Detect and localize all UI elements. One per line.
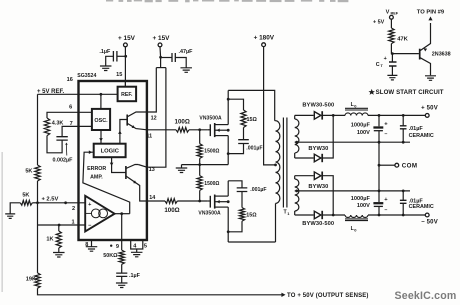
pin 13 [149,167,155,173]
wire OSC to LOGIC [99,130,103,144]
wire snubber2 bottom [228,221,242,232]
svg-text:CERAMIC: CERAMIC [409,133,434,139]
svg-text:12: 12 [151,115,157,121]
IC U1 SG3524 outline [79,81,147,240]
capacitor .001uF bottom [237,188,248,192]
capacitor .47uF bypass [161,53,187,68]
junction gate bottom [198,200,201,203]
junction pin1-1K [58,224,61,227]
junction CT [391,52,394,55]
junction COM top [378,141,405,144]
pin 2 [72,206,75,212]
wire 100ohm to gate [189,129,208,131]
resistor 1500 top [197,130,202,159]
svg-text:2N3638: 2N3638 [432,51,451,57]
svg-text:.1µF: .1µF [99,49,111,55]
svg-text:BYW30-500: BYW30-500 [302,103,334,109]
transistor M1 VN3500A [208,123,230,137]
resistor 5K upper [35,165,40,181]
ground (bypass cap 1) [100,66,112,71]
wire +15V1 to pin 15 [124,47,126,87]
power terminal +15V (left) [118,35,136,47]
label VN3500A top [199,115,222,121]
wire +15V split bar [156,67,166,69]
label L0 top [351,102,358,108]
pin 9 [110,244,119,250]
wire pin 1 feedback [38,224,86,226]
svg-text:T: T [381,64,384,68]
svg-text:BYW30: BYW30 [308,146,328,152]
label +5V REF. [37,89,65,95]
label 15ohm top [247,117,258,123]
transistor M2 VN3500A [208,195,230,209]
svg-text:15Ω: 15Ω [246,213,257,219]
svg-text:BYW30-500: BYW30-500 [302,221,334,227]
diode D2 BYW30 [314,154,322,162]
label SLOW START CIRCUIT [369,89,444,96]
junction rectifier bottom [332,214,335,217]
svg-text:−: − [384,132,387,138]
svg-text:19K: 19K [26,276,36,282]
label .001uF bottom [250,187,266,193]
power terminal -50V [421,213,438,225]
power terminal +50V [421,106,438,118]
label .001uF top [246,146,262,152]
ground (pin 8) [86,247,98,252]
svg-text:15Ω: 15Ω [247,117,258,123]
pin 8 [85,242,88,248]
wire output sense line [38,288,286,297]
junction gnd bus [198,163,201,166]
svg-text:.001µF: .001µF [246,146,262,152]
wire +5V REF (pin 16) to REF block [38,93,118,95]
label 1000uF 100V bottom [351,196,371,209]
label .1uF [99,49,111,55]
svg-text:+ 5V: + 5V [373,20,385,26]
resistor 15ohm bottom [239,208,244,222]
transformer core [283,118,287,208]
wire pin 14 out [147,200,165,202]
wire COM rail top [298,141,410,143]
svg-text:6: 6 [69,104,72,110]
block LOGIC [94,144,126,158]
svg-text:9: 9 [116,244,119,250]
ground (pin 9 cap) [116,283,128,288]
label TO +50V OUTPUT SENSE [287,293,369,299]
junction snubber1 bottom [227,152,230,155]
svg-text:+ 2.5V: + 2.5V [41,197,58,203]
svg-text:100Ω: 100Ω [164,207,179,214]
label .01uF CERAMIC top [409,126,434,139]
label 2N3638 [432,51,451,57]
pin 4 and 5 tie [131,240,147,252]
label BYW30-500 bottom [302,221,334,227]
junction secondary2 center tap [295,190,298,193]
label 100ohm top [175,118,190,125]
wire drain top rail [228,90,275,120]
label +5V [373,20,385,26]
power terminal +180V [254,34,275,46]
block OSC [92,109,110,130]
wire pin 11 out [147,129,176,131]
capacitor CT [384,54,397,76]
wire +5V REF bus [37,94,39,165]
svg-text:VN3500A: VN3500A [199,115,222,121]
wire 1500 top to gnd bus [199,158,201,164]
resistor 5K lower [20,200,32,205]
label 5K upper [25,169,32,175]
capacitor .01uF bottom [400,191,407,215]
svg-text:13: 13 [149,167,155,173]
power terminal COM [395,162,418,169]
svg-text:LOGIC: LOGIC [101,149,120,155]
label VN3500A bottom [198,211,221,217]
wire 50K to .1uF [121,264,123,273]
wire snubber1 top [228,99,243,110]
wire 47K to base [391,44,419,54]
junction C-top [378,114,405,117]
junction +15V1 [124,55,127,58]
capacitor C1000uF bottom [373,191,388,215]
wire sec1 bottom tap [295,157,314,159]
diode D3 BYW30 [314,172,322,180]
wire snubber1 bottom [228,144,243,154]
wire to pin 9 arrow [428,17,432,21]
wire +2.5V to pin1 bus [37,203,39,225]
resistor 47K [389,28,394,44]
inductor L0 top [345,108,368,115]
transistor Q1 2N3638 [420,23,431,75]
svg-text:C: C [376,62,380,68]
svg-text:5K: 5K [25,169,32,175]
label 1K [46,237,53,243]
pin 6 [69,104,72,110]
svg-text:TO + 50V (OUTPUT SENSE): TO + 50V (OUTPUT SENSE) [287,293,369,299]
pin 16 [67,77,73,83]
ground (source bus) [176,168,188,173]
capacitor .1uF (pin 9) [116,273,127,276]
wire M1 drain up [227,90,229,124]
ground (Q1 emitter) [425,76,436,81]
svg-text:0.002µF: 0.002µF [53,158,74,164]
svg-text:+: + [384,121,388,127]
ground (bypass cap 2) [180,68,192,73]
svg-text:1500Ω: 1500Ω [204,148,219,154]
wire M2 drain up [227,181,229,196]
svg-text:SLOW START CIRCUIT: SLOW START CIRCUIT [376,89,444,96]
svg-text:+: + [384,56,387,62]
wire REF line to OSC [100,94,102,109]
wire +180V to primary center [264,47,276,165]
diode D1 BYW30-500 [314,111,322,119]
wire pin 8 to ground [91,240,93,247]
wire sec1 top tap [295,114,314,116]
svg-text:BYW30: BYW30 [308,184,328,190]
label TO PIN #9 [417,10,445,16]
wire 5K to +2.5V node [37,181,39,203]
svg-text:.01µF: .01µF [409,126,424,132]
svg-text:.47µF: .47µF [179,49,194,55]
svg-text:16: 16 [67,77,73,83]
wire snubber2 top [228,181,242,188]
wire cap2 to 15ohm [241,192,243,208]
wire pin 6 to timing R [47,112,92,118]
svg-text:47K: 47K [397,36,408,42]
svg-text:SeekIC.com: SeekIC.com [394,290,456,302]
pin 14 [149,195,155,201]
inductor L0 bottom [345,215,368,221]
svg-text:14: 14 [149,195,155,201]
label SeekIC.com watermark [394,290,456,302]
label T1 [284,210,291,217]
svg-text:1K: 1K [46,237,53,243]
diode D4 BYW30-500 [314,211,322,219]
label BYW30-500 top [302,103,334,109]
svg-text:− 50V: − 50V [421,219,438,225]
svg-text:+ 15V: + 15V [118,35,136,42]
pin 11 [146,133,152,139]
svg-text:+ 5V REF.: + 5V REF. [37,89,65,95]
svg-text:0: 0 [354,227,357,232]
svg-text:TO PIN #9: TO PIN #9 [417,10,445,16]
label 1000uF 100V top [351,123,371,136]
svg-text:OSC.: OSC. [94,118,108,124]
resistor 100ohm top [176,127,189,132]
label .1uF (pin 9) [129,273,141,279]
wire D1 cathode [322,114,345,116]
wire D4 cathode [322,214,345,216]
svg-text:REF: REF [391,12,399,16]
label ERROR AMP. [87,166,106,180]
svg-text:+ 15V: + 15V [153,35,171,42]
svg-text:.1µF: .1µF [129,273,141,279]
svg-text:1: 1 [287,211,290,216]
wire COM drop [378,142,380,191]
wire COM stub [379,164,395,166]
svg-text:100V: 100V [357,203,370,209]
wire timing R bottom loop [47,136,62,153]
label 4.3K [52,121,64,127]
label BYW30 lower [308,184,328,190]
ground bus (MOSFET source) [182,165,229,168]
label 5K lower [22,193,29,199]
svg-text:+ 180V: + 180V [254,34,275,41]
junction rectifier top [332,114,335,117]
svg-text:15: 15 [116,72,122,78]
wire 5K lower leads [10,203,37,214]
resistor 19K [35,273,40,288]
capacitor .1uF bypass [106,51,126,66]
svg-text:1000µF: 1000µF [351,196,371,202]
label +2.5V [41,197,58,203]
svg-text:11: 11 [146,133,152,139]
svg-text:2: 2 [72,206,75,212]
resistor 100ohm bottom [165,199,177,204]
junction REF-OSC [100,93,103,96]
label 19K [26,276,36,282]
ground (CT) [387,75,397,80]
svg-text:REF.: REF. [121,92,133,98]
junction COM bottom [378,190,405,193]
wire 1500 bottom to gate2 [199,190,201,201]
block REF [118,87,137,102]
wire D2 cathode up [322,115,333,158]
label .01uF CERAMIC bottom [409,199,434,211]
junction snubber2 bottom [227,230,230,233]
svg-text:.001µF: .001µF [250,187,266,193]
svg-text:ERROR: ERROR [87,166,106,172]
wire COM rail bottom [298,190,410,192]
junction +2.5V [36,201,67,204]
junction +15V2 [159,56,162,59]
svg-text:+: + [88,202,92,208]
wire 100ohm2 to gate [177,200,207,202]
svg-text:100Ω: 100Ω [175,118,190,125]
wire +15V drop to pin 13 [147,68,166,168]
ground (5K divider) [5,214,15,219]
svg-text:+ 50V: + 50V [421,106,438,112]
pin 15 [116,72,122,78]
wire .1uF to ground [121,276,123,283]
wire 1K to ground [58,248,60,253]
wire 15ohm to cap [243,128,245,140]
wire D3 cathode down [322,176,333,215]
svg-text:5: 5 [144,244,147,250]
resistor 1500 bottom [197,165,202,191]
pin 1 [71,219,74,225]
wire -50V rail [368,214,425,216]
svg-text:CERAMIC: CERAMIC [409,204,434,210]
label 100ohm bottom [164,207,179,214]
power terminal VREF [386,9,399,19]
wire +15V2 stem [159,47,162,68]
wire pin 2 (+2.5V) [38,202,86,204]
junction primary center tap [274,164,277,167]
ground (1K) [53,253,65,258]
wire feedback bus down [37,225,39,273]
label 1500 bottom [204,181,219,187]
transformer T1 secondary lower [295,176,299,215]
wire +15V drop to pin 12 [147,68,156,112]
resistor 1K [56,225,61,248]
wire M1 source down [227,136,229,165]
wire VREF to 47K [390,19,392,28]
junction error amp output [120,212,123,215]
junction snubber1 top [227,98,230,101]
resistor 4.3K [44,118,49,136]
transformer T1 secondary upper [295,115,299,158]
wire error amp output [115,213,130,215]
svg-text:1000µF: 1000µF [351,123,371,129]
resistor 50K [119,250,124,264]
wire M2 source down [227,207,229,242]
label 47K [397,36,408,42]
resistor 15ohm top [241,110,246,128]
svg-text:100V: 100V [357,130,370,136]
power terminal +15V (right) [153,35,171,47]
pin 7 [70,121,73,127]
svg-text:5K: 5K [22,193,29,199]
svg-text:50KΩ: 50KΩ [103,253,118,259]
wire pin 7 to timing C [62,126,92,136]
svg-text:+: + [384,197,388,203]
wire sec2 bottom tap [295,214,314,216]
wire M2 bottom rail [228,241,275,243]
wire sec2 top tap [295,175,314,177]
label 0.002uF [53,143,74,164]
wire comparator feedback to LOGIC [83,150,130,213]
label 50K [103,253,118,259]
label 1500 top [204,148,219,154]
wire +50V rail [368,114,425,116]
junction -50V rail [378,214,405,217]
op-amp U1A error amp [85,196,114,232]
label 15ohm bottom [246,213,257,219]
junction secondary1 center tap [295,141,298,144]
wire pin 9 drop [121,214,123,250]
svg-text:1500Ω: 1500Ω [204,181,219,187]
svg-text:SG3524: SG3524 [77,73,96,79]
ground (pins 4-5) [131,252,143,256]
label SG3524 [77,73,96,79]
capacitor .01uF top [400,115,407,142]
transistor Q-int-B (bottom driver) [110,157,147,201]
label CT [376,62,384,68]
svg-text:VN3500A: VN3500A [198,211,221,217]
pin 12 [151,115,157,121]
wire pin15 into REF [124,81,126,87]
svg-text:−: − [384,207,387,213]
label .47uF [179,49,194,55]
junction COM mid [378,164,381,167]
capacitor 0.002uF timing [56,137,67,140]
transistor Q-int-A (top driver) [118,112,147,144]
transformer T1 primary [275,121,280,242]
svg-text:COM: COM [402,162,418,169]
capacitor C1000uF top [373,115,388,142]
svg-text:V: V [386,9,390,15]
capacitor .001uF top [238,140,249,144]
svg-text:4.3K: 4.3K [52,121,64,127]
label BYW30 upper [308,146,328,152]
svg-text:AMP.: AMP. [90,175,103,181]
label L0 bottom [351,226,358,232]
junction gate top [198,128,201,131]
